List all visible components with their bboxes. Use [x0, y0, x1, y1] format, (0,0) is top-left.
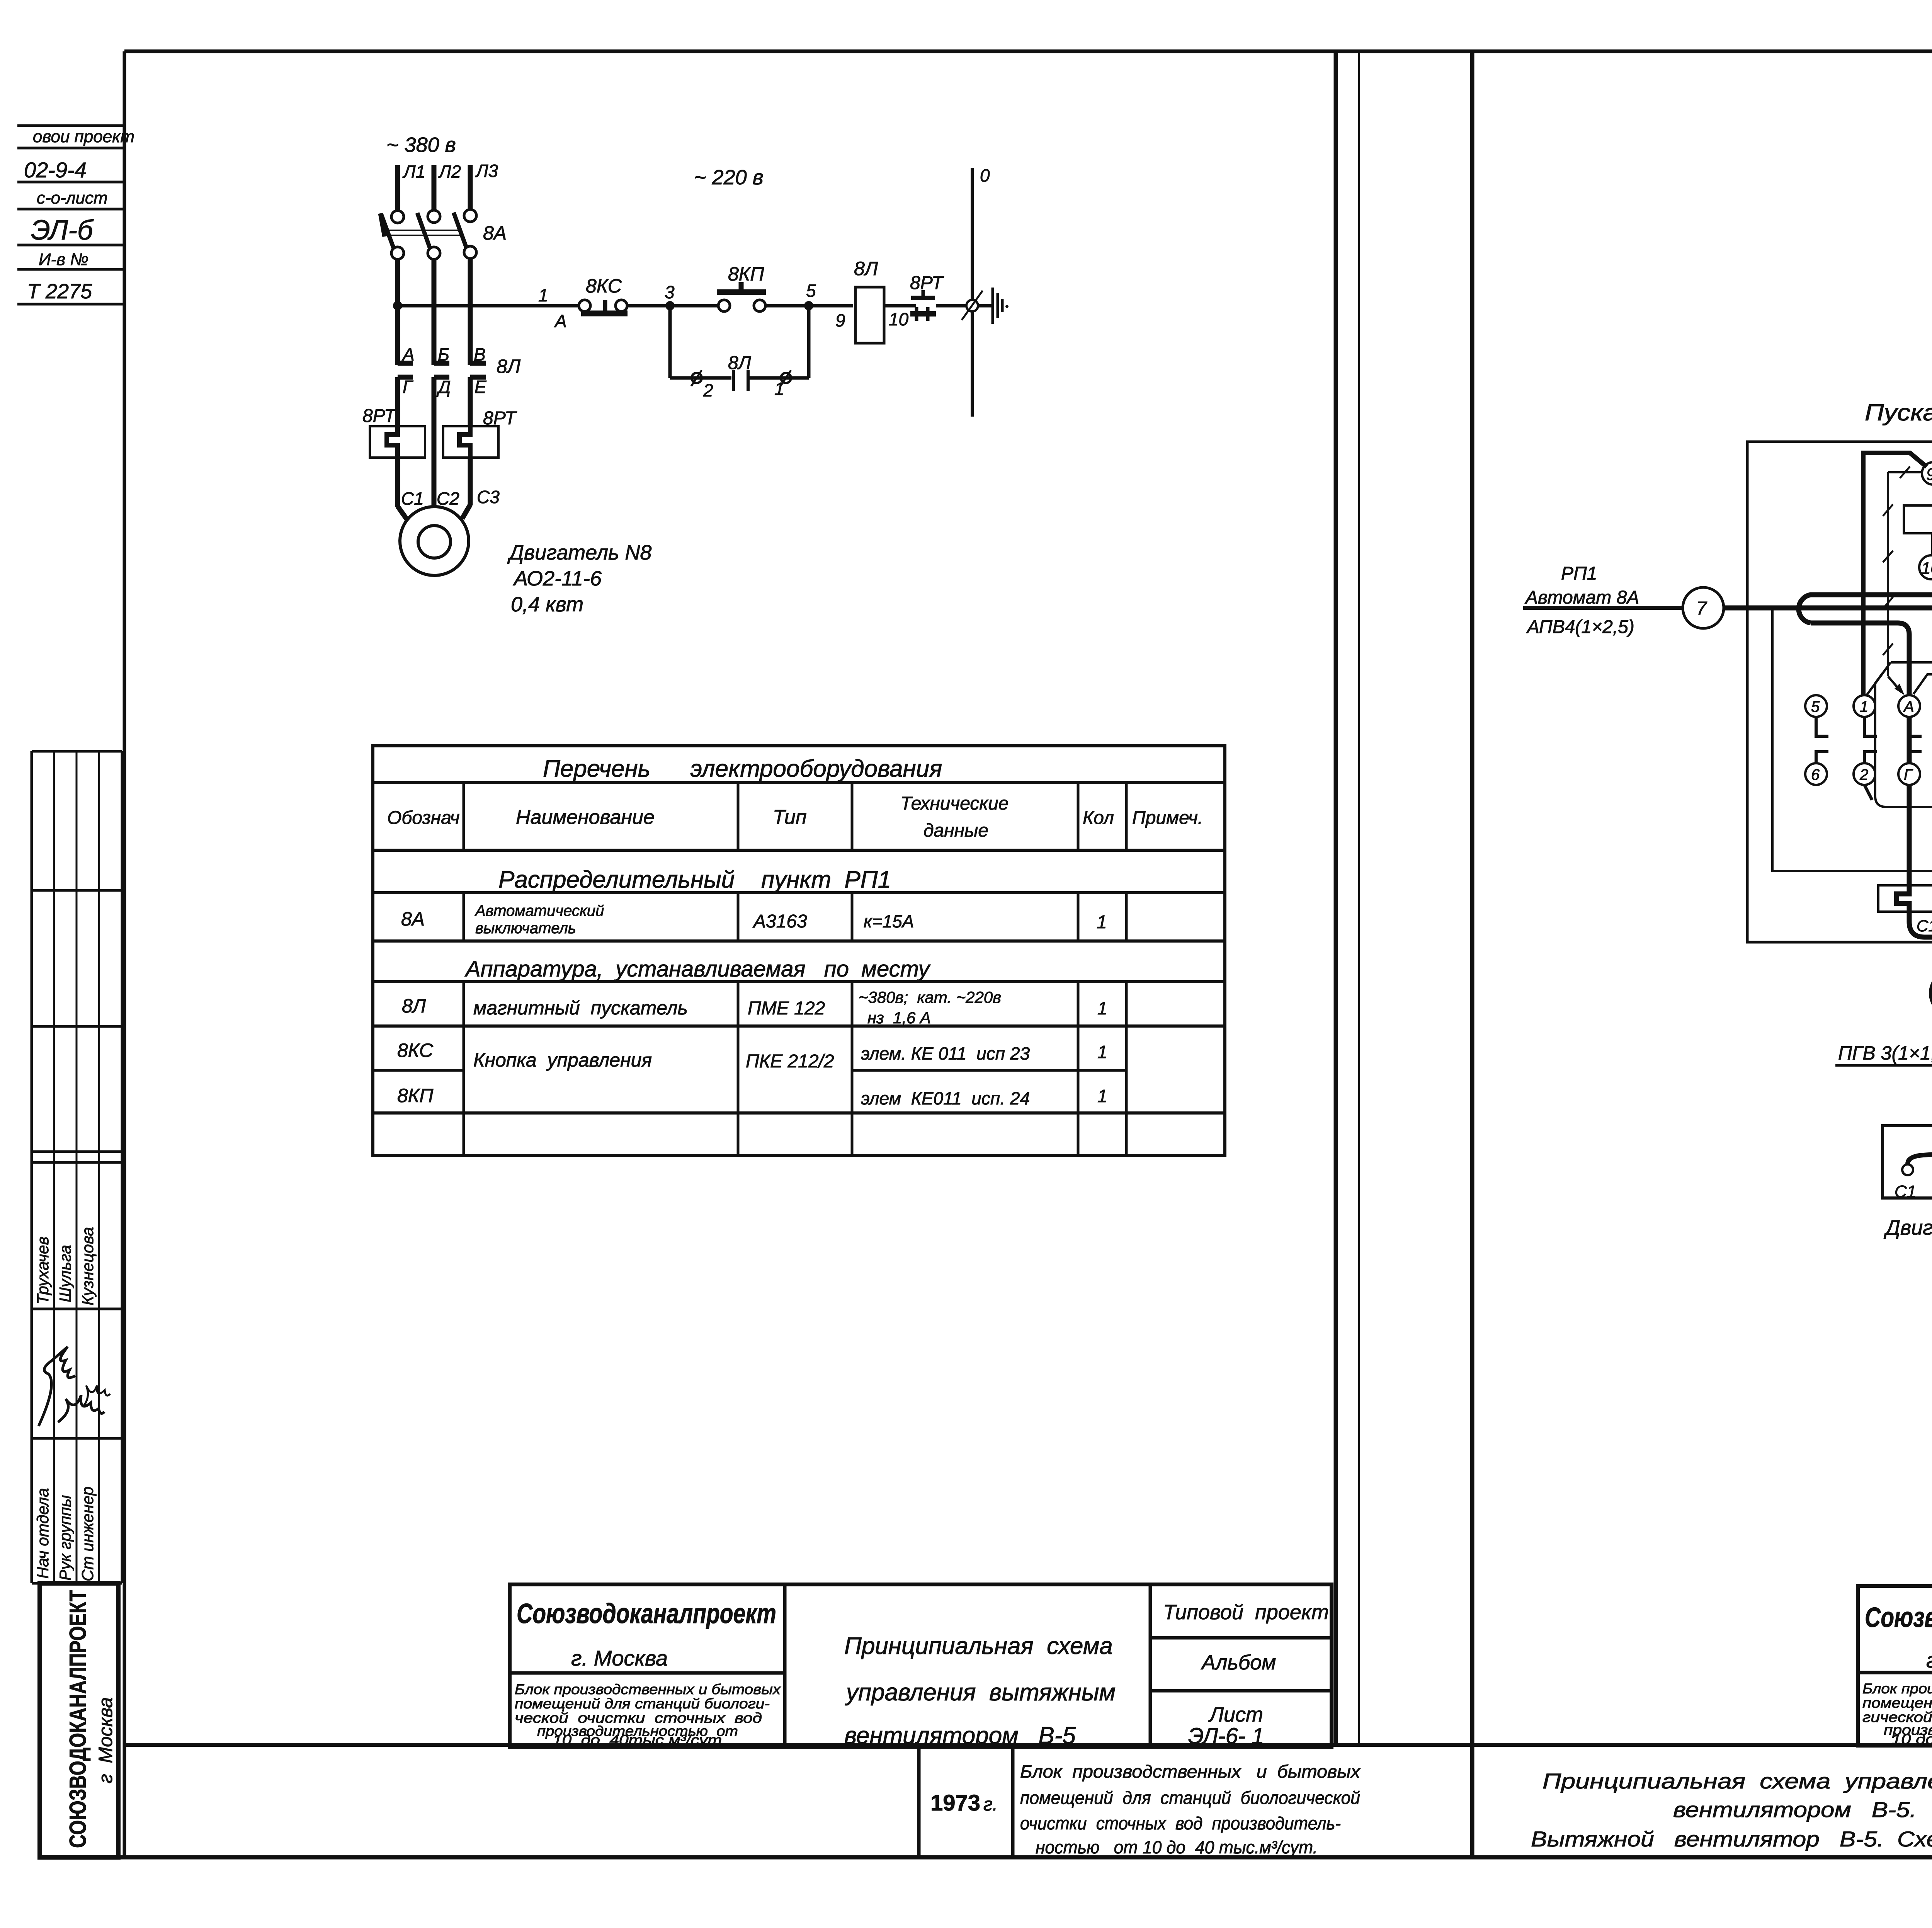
svg-text:Союзводоканалпроект: Союзводоканалпроект [1865, 1602, 1932, 1633]
svg-text:ПГВ 3(1×1,5): ПГВ 3(1×1,5) [1838, 1042, 1932, 1064]
svg-text:Двигатель N8: Двигатель N8 [507, 541, 651, 564]
svg-text:ПКЕ 212/2: ПКЕ 212/2 [746, 1051, 834, 1072]
svg-text:помещений для станций биологи-: помещений для станций биологи- [515, 1696, 770, 1712]
svg-text:данные: данные [923, 820, 988, 841]
svg-text:очистки сточных вод произво: очистки сточных вод производитель- [1020, 1813, 1341, 1833]
svg-text:помещений для станций биоло: помещений для станций биологической [1020, 1788, 1360, 1808]
svg-text:А: А [401, 344, 415, 364]
svg-text:Л3: Л3 [475, 161, 498, 181]
svg-text:Т 2275: Т 2275 [27, 280, 92, 303]
svg-text:Л1: Л1 [402, 162, 425, 182]
svg-text:8КП: 8КП [728, 263, 764, 285]
svg-text:С1: С1 [1917, 917, 1932, 935]
svg-text:элем КЕ011 исп. 24: элем КЕ011 исп. 24 [861, 1088, 1030, 1108]
svg-text:ностью от 10 до 40 тыс.м³/с: ностью от 10 до 40 тыс.м³/сут. [1036, 1837, 1318, 1857]
svg-text:1: 1 [1097, 1042, 1107, 1062]
svg-text:Пускатель 8Л: Пускатель 8Л [1865, 400, 1932, 425]
svg-text:г Москва: г Москва [95, 1697, 116, 1783]
svg-text:Рук группы: Рук группы [56, 1495, 74, 1581]
svg-text:помещении для станций биоло-: помещении для станций биоло- [1862, 1695, 1932, 1711]
svg-text:Шульга: Шульга [56, 1245, 74, 1302]
svg-text:10 до 40 тыс. м3/сут: 10 до 40 тыс. м3/сут [1891, 1731, 1932, 1747]
svg-text:8А: 8А [401, 908, 425, 930]
svg-text:Автомат 8А: Автомат 8А [1524, 587, 1639, 608]
svg-text:А: А [554, 311, 567, 331]
svg-text:Трухачев: Трухачев [34, 1237, 52, 1304]
svg-text:Б: Б [438, 344, 449, 364]
svg-text:Перечень электрооборудова: Перечень электрооборудования [543, 756, 942, 782]
svg-text:ПМЕ 122: ПМЕ 122 [748, 998, 825, 1019]
svg-text:Типовой проект: Типовой проект [1163, 1601, 1329, 1624]
svg-text:управления вытяжным: управления вытяжным [845, 1679, 1116, 1706]
svg-text:Технические: Технические [900, 793, 1009, 814]
svg-text:10: 10 [1921, 559, 1932, 578]
svg-text:Кузнецова: Кузнецова [78, 1227, 97, 1305]
svg-text:9: 9 [1926, 465, 1932, 484]
svg-text:1: 1 [1097, 998, 1107, 1018]
svg-text:8КП: 8КП [397, 1085, 434, 1106]
svg-text:ЭЛ-б: ЭЛ-б [31, 215, 94, 246]
svg-text:1: 1 [1097, 1086, 1107, 1106]
svg-text:Союзводоканалпроект: Союзводоканалпроект [517, 1598, 776, 1629]
svg-text:8Л: 8Л [497, 356, 521, 377]
svg-text:А: А [1903, 698, 1914, 715]
svg-text:И-в №: И-в № [39, 250, 88, 269]
svg-text:1: 1 [774, 379, 784, 399]
svg-text:Блок производственных и бытовы: Блок производственных и бытовым [1862, 1681, 1932, 1697]
svg-text:АО2-11-6: АО2-11-6 [513, 567, 602, 590]
svg-text:02-9-4: 02-9-4 [24, 158, 87, 182]
svg-text:Аппаратура, устанавливаемая: Аппаратура, устанавливаемая по месту [464, 956, 931, 982]
svg-text:~ 220 в: ~ 220 в [694, 166, 764, 189]
svg-text:5: 5 [1811, 698, 1820, 715]
svg-text:С1: С1 [1895, 1182, 1916, 1201]
svg-text:Л2: Л2 [438, 162, 461, 182]
svg-text:С1: С1 [401, 488, 424, 509]
svg-text:г.: г. [983, 1794, 998, 1815]
svg-text:Примеч.: Примеч. [1132, 808, 1203, 828]
svg-text:АПВ4(1×2,5): АПВ4(1×2,5) [1526, 617, 1634, 637]
svg-text:Г: Г [403, 377, 413, 397]
svg-text:8Л: 8Л [728, 353, 751, 373]
svg-text:8РТ: 8РТ [362, 406, 397, 426]
svg-text:1: 1 [1860, 698, 1868, 715]
svg-text:2: 2 [1859, 766, 1868, 783]
svg-text:8РТ: 8РТ [910, 273, 944, 293]
svg-text:Тип: Тип [773, 806, 807, 829]
svg-text:2: 2 [703, 380, 713, 400]
svg-text:Распределительный пункт РП: Распределительный пункт РП1 [498, 866, 891, 893]
svg-text:10: 10 [889, 309, 909, 329]
svg-text:С3: С3 [477, 487, 500, 507]
svg-text:Д: Д [436, 377, 451, 397]
svg-text:г Москва: г Москва [1926, 1648, 1932, 1672]
svg-text:1: 1 [538, 285, 548, 305]
svg-text:0,4 квт: 0,4 квт [511, 593, 583, 616]
svg-text:вентилятором В-5.: вентилятором В-5. [1673, 1797, 1917, 1822]
svg-text:Блок производственных и бытовы: Блок производственных и бытовых [515, 1681, 781, 1697]
svg-text:г. Москва: г. Москва [571, 1646, 668, 1670]
svg-text:Обознач: Обознач [387, 808, 460, 828]
svg-text:овои проект: овои проект [33, 127, 134, 146]
svg-text:6: 6 [1811, 766, 1820, 783]
svg-text:8Л: 8Л [402, 995, 426, 1017]
svg-text:Лист: Лист [1208, 1703, 1263, 1726]
svg-text:Вытяжной вентилятор В-5.: Вытяжной вентилятор В-5. Схема подключен… [1531, 1827, 1932, 1851]
svg-text:1973: 1973 [930, 1790, 980, 1816]
svg-text:9: 9 [835, 310, 845, 330]
svg-text:СОЮЗВОДОКАНАЛПРОЕКТ: СОЮЗВОДОКАНАЛПРОЕКТ [65, 1590, 91, 1848]
svg-text:Принципиальная схема: Принципиальная схема [844, 1633, 1113, 1659]
svg-text:с-о-лист: с-о-лист [37, 189, 108, 208]
svg-text:1: 1 [1097, 912, 1107, 933]
svg-text:А3163: А3163 [752, 911, 807, 932]
svg-text:Наименование: Наименование [516, 806, 655, 829]
svg-text:Принципиальная схема управле: Принципиальная схема управления вытяжным [1543, 1769, 1932, 1793]
svg-text:8Л: 8Л [854, 258, 878, 279]
svg-text:~380в; кат. ~220в: ~380в; кат. ~220в [859, 988, 1001, 1006]
svg-text:8КС: 8КС [586, 275, 622, 297]
svg-text:8А: 8А [483, 222, 507, 244]
svg-text:Кнопка управления: Кнопка управления [473, 1049, 652, 1071]
svg-text:Нач отдела: Нач отдела [34, 1488, 52, 1579]
svg-text:Блок производственных и бы: Блок производственных и бытовых [1020, 1761, 1361, 1782]
svg-text:7: 7 [1696, 598, 1708, 619]
svg-text:0: 0 [980, 165, 990, 185]
svg-text:8РТ: 8РТ [483, 408, 517, 429]
svg-text:выключатель: выключатель [475, 920, 576, 937]
svg-text:элем. КЕ 011 исп 23: элем. КЕ 011 исп 23 [861, 1043, 1030, 1064]
svg-text:Двигатель 8: Двигатель 8 [1884, 1216, 1932, 1239]
svg-text:Г: Г [1904, 766, 1913, 783]
svg-text:Е: Е [474, 377, 487, 397]
svg-text:3: 3 [665, 282, 675, 302]
svg-text:В: В [474, 344, 486, 364]
svg-text:~ 380 в: ~ 380 в [386, 133, 456, 157]
svg-text:Ст инженер: Ст инженер [78, 1486, 97, 1581]
svg-text:нз 1,6 А: нз 1,6 А [867, 1009, 931, 1027]
svg-text:магнитный пускатель: магнитный пускатель [473, 997, 688, 1019]
svg-text:8КС: 8КС [397, 1040, 434, 1061]
svg-text:Кол: Кол [1083, 808, 1114, 828]
svg-text:5: 5 [806, 281, 816, 301]
svg-text:Альбом: Альбом [1201, 1651, 1276, 1674]
svg-text:к=15А: к=15А [864, 911, 914, 931]
svg-text:Автоматический: Автоматический [474, 902, 604, 919]
svg-text:РП1: РП1 [1561, 563, 1597, 584]
svg-text:С2: С2 [437, 488, 459, 509]
